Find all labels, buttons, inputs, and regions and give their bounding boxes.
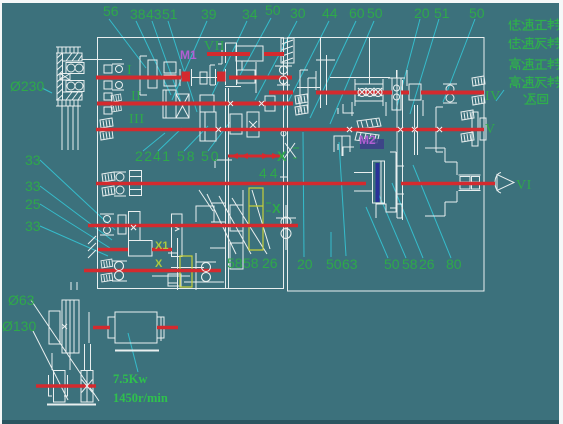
bracket right of M2 gear bbox=[390, 152, 404, 208]
motor body bbox=[115, 312, 157, 343]
bracket left of shaft I gear bbox=[140, 56, 147, 95]
clutch C bracket bbox=[495, 173, 501, 194]
svg-text:7.5Kw: 7.5Kw bbox=[113, 372, 147, 386]
svg-text:38: 38 bbox=[130, 6, 146, 22]
svg-text:50: 50 bbox=[201, 148, 221, 164]
leader from 43 bbox=[152, 21, 182, 105]
gear lattice shaft IV bbox=[352, 79, 386, 116]
white diagonals at chi bbox=[283, 143, 296, 160]
leader from 51b bbox=[410, 19, 439, 114]
svg-text:X: X bbox=[277, 148, 287, 164]
svg-text:X1: X1 bbox=[155, 240, 168, 252]
leader vertical to 63 bottom bbox=[339, 142, 346, 256]
x marks over red shaft II bbox=[228, 101, 264, 106]
tall gear verticals center right box bbox=[397, 70, 403, 220]
svg-text:M2: M2 bbox=[359, 133, 376, 147]
motor base bbox=[115, 350, 159, 352]
M2 gear cluster bbox=[354, 161, 385, 203]
gearbox right housing box bbox=[288, 38, 485, 292]
bearing bottom left bbox=[101, 259, 113, 268]
brackets around V hatched gear bbox=[338, 104, 354, 156]
small plate shaft I bbox=[200, 72, 207, 84]
vertical line right of yellow gear bbox=[195, 253, 197, 290]
svg-text:50: 50 bbox=[265, 2, 281, 18]
white shaft line between couplings bbox=[192, 77, 217, 79]
leader from 39 bbox=[172, 21, 207, 100]
svg-text:Ø230: Ø230 bbox=[10, 78, 44, 94]
tall fork gear rect bbox=[129, 212, 141, 241]
white diagonal fork leader bbox=[252, 190, 270, 249]
cyan leader lines layer bbox=[40, 18, 504, 372]
svg-text:III: III bbox=[129, 112, 145, 127]
gear on shaft I bbox=[148, 60, 157, 88]
leader from 25 bbox=[40, 204, 110, 248]
small x on shaft y224 bbox=[131, 225, 136, 230]
svg-text:Ø130: Ø130 bbox=[2, 318, 36, 334]
leader to 50 bottom right bbox=[366, 207, 388, 258]
chinese row 3 high speed forward bbox=[510, 58, 561, 70]
leader motor to 7.5Kw bbox=[128, 333, 138, 372]
motor right cap bbox=[157, 317, 164, 338]
fork slide rect upper bbox=[230, 205, 243, 231]
shaft I red bbox=[96, 76, 292, 80]
bearing row y224 left bbox=[104, 216, 111, 223]
fork tick marks bbox=[210, 203, 226, 248]
white drawing layer bbox=[31, 37, 514, 405]
red dimension arrows mid bbox=[228, 155, 283, 158]
hatched gear cluster shaft V bbox=[355, 118, 381, 143]
staircase to clutch lower bbox=[425, 191, 457, 216]
svg-text:20: 20 bbox=[297, 256, 313, 272]
shaft II hatch ticks bbox=[111, 94, 121, 102]
coupling red b shaft I bbox=[217, 72, 226, 82]
leader from 44 bbox=[284, 21, 329, 110]
svg-text:33: 33 bbox=[25, 152, 41, 168]
svg-text:22: 22 bbox=[135, 148, 154, 164]
svg-text:IV: IV bbox=[485, 89, 501, 104]
shaft y250 red bbox=[98, 248, 172, 252]
svg-text:51: 51 bbox=[162, 6, 178, 22]
gear rect on shaft VII bbox=[236, 46, 263, 61]
svg-text:50: 50 bbox=[326, 256, 342, 272]
svg-text:X: X bbox=[272, 201, 281, 216]
pulley x mark bbox=[62, 324, 67, 329]
svg-text:44: 44 bbox=[322, 5, 338, 21]
gear shaft III mid bbox=[230, 114, 242, 134]
lower pulley shaft red bbox=[36, 384, 96, 388]
shaft y270 red bbox=[84, 269, 221, 273]
white leader 26bl bbox=[232, 198, 267, 254]
leader vertical to 50 bottom bbox=[330, 232, 332, 257]
svg-text:43: 43 bbox=[146, 6, 162, 22]
x mark over red shaft III bbox=[216, 127, 221, 132]
motor left cap bbox=[108, 317, 115, 338]
leader from 33b bbox=[40, 186, 112, 240]
fork slide rect lower bbox=[230, 243, 243, 269]
input pulley upper bearing pair bbox=[66, 63, 84, 74]
gearbox left housing box bbox=[98, 38, 284, 289]
pointer hook 22 row bbox=[215, 160, 232, 168]
svg-text:34: 34 bbox=[242, 6, 258, 22]
leader from 50b bbox=[330, 21, 374, 124]
white marks over red bbox=[82, 66, 443, 395]
leader from 58m bbox=[184, 126, 208, 151]
gear bridging II-III bbox=[176, 94, 189, 118]
divider bearing on shaft II bbox=[275, 58, 292, 92]
small x marks shaft V bbox=[347, 127, 442, 132]
gear cluster shaft II bbox=[163, 90, 176, 118]
motor shaft red bbox=[93, 326, 178, 330]
hatched gear on shaft VII right bbox=[281, 38, 294, 63]
bracket above M2 area bbox=[334, 136, 350, 156]
svg-text:39: 39 bbox=[201, 6, 217, 22]
svg-text:Ø63: Ø63 bbox=[8, 292, 35, 308]
svg-text:26: 26 bbox=[262, 255, 278, 271]
svg-text:58: 58 bbox=[227, 255, 243, 271]
bearing shaft IV right bbox=[446, 85, 454, 93]
yellow tall rect lower bbox=[180, 256, 192, 287]
bearing circles over red bottom bbox=[115, 262, 211, 282]
svg-text:VI: VI bbox=[516, 178, 532, 193]
svg-text:63: 63 bbox=[342, 256, 358, 272]
coupling shaft II bbox=[265, 96, 275, 111]
svg-text:25: 25 bbox=[25, 196, 41, 212]
clutch rects bbox=[459, 175, 481, 191]
clutch triangle bbox=[497, 175, 514, 191]
svg-text:58: 58 bbox=[243, 255, 259, 271]
bracket shaft V right bbox=[436, 107, 443, 152]
leader from 33a bbox=[40, 160, 115, 230]
leader from 60 bbox=[310, 21, 356, 118]
shaft IV red main bbox=[316, 91, 484, 95]
end gears shaft V bbox=[472, 112, 486, 146]
svg-text:58: 58 bbox=[177, 148, 197, 164]
pulley shaft hanger lines bbox=[62, 106, 78, 150]
leader to 80 bottom right bbox=[413, 165, 451, 258]
fork bracket bbox=[196, 206, 214, 222]
svg-text:33: 33 bbox=[25, 178, 41, 194]
leader from 38 bbox=[136, 21, 171, 95]
svg-text:II: II bbox=[131, 89, 141, 104]
left edge hatch ticks bbox=[88, 236, 96, 258]
svg-text:20: 20 bbox=[414, 5, 430, 21]
chinese row 5 return bbox=[524, 94, 548, 104]
input pulley left hatched column bbox=[57, 53, 63, 100]
border frame left bbox=[0, 0, 2, 424]
leader from 33c bbox=[40, 226, 108, 256]
big pulley stack bottom left bbox=[49, 300, 79, 353]
divider column mid bbox=[281, 131, 286, 136]
gear shaft IV right bbox=[407, 70, 423, 116]
motor shaft flange bbox=[160, 317, 162, 341]
square with line bottom bbox=[152, 274, 190, 286]
pi bracket right box bottom bbox=[376, 204, 402, 218]
bevel pair shaft V right bbox=[461, 110, 474, 120]
bearing column right of divider bbox=[316, 38, 335, 108]
fork slider rect right bbox=[172, 214, 183, 257]
svg-text:50: 50 bbox=[469, 5, 485, 21]
white diagonal hook bbox=[199, 190, 213, 211]
leader from 30 bbox=[255, 21, 297, 100]
gear shaft II right bbox=[200, 95, 214, 112]
gear with x shaft III bbox=[247, 112, 259, 137]
leader from 50c bbox=[443, 19, 475, 102]
asterisk over red at lower pulley bbox=[82, 377, 93, 395]
svg-text:1450r/min: 1450r/min bbox=[113, 391, 168, 405]
svg-text:50: 50 bbox=[367, 5, 383, 21]
coupling red a shaft I bbox=[182, 72, 191, 82]
svg-text:I: I bbox=[127, 63, 132, 78]
white leader 58bl2 bbox=[219, 196, 251, 254]
small cyan mark near return row bbox=[496, 90, 504, 101]
input pulley top arm bbox=[63, 53, 83, 61]
phi leaders white bbox=[31, 300, 99, 401]
divider bearing circles over red bbox=[280, 66, 288, 84]
fork rod bbox=[168, 238, 178, 290]
shaft II left bearing bbox=[104, 93, 112, 114]
svg-text:80: 80 bbox=[446, 256, 462, 272]
bracket line to box bbox=[82, 59, 122, 61]
red shaft layer bbox=[36, 54, 495, 386]
svg-text:51: 51 bbox=[434, 5, 450, 21]
double square gear y183 bbox=[130, 171, 142, 196]
shaft VI red left bbox=[96, 182, 366, 186]
shaft VII red segment a bbox=[207, 52, 250, 56]
vertical hanger below VII gear bbox=[242, 61, 256, 93]
svg-text:56: 56 bbox=[103, 3, 119, 19]
lattice circles over red bbox=[358, 88, 382, 97]
shaft IV red stub bbox=[269, 91, 293, 95]
white leader 58bl bbox=[207, 194, 236, 254]
leader from 20t bbox=[396, 19, 420, 110]
svg-text:58: 58 bbox=[402, 256, 418, 272]
shaft III left bevel bearing bbox=[100, 118, 113, 128]
staircase to clutch upper bbox=[425, 148, 457, 175]
leader to 26 bottom right bbox=[392, 183, 423, 258]
small pulley flanges bbox=[49, 375, 68, 396]
input pulley bottom teeth bbox=[56, 100, 81, 106]
input pulley bottom arm bbox=[63, 92, 83, 100]
border frame right bbox=[559, 0, 563, 424]
bracket left of VII gear bbox=[218, 44, 222, 64]
svg-text:X: X bbox=[155, 258, 163, 270]
shaft VI red right bbox=[401, 182, 495, 186]
leader from 51 bbox=[168, 21, 197, 112]
blue layer bbox=[360, 139, 384, 202]
tall gear pair shaft V mid bbox=[415, 105, 418, 155]
shaft I left bearing bbox=[104, 65, 112, 89]
staircase above shaft IV bbox=[297, 70, 320, 112]
svg-text:26: 26 bbox=[419, 256, 435, 272]
svg-text:30: 30 bbox=[290, 5, 306, 21]
svg-text:60: 60 bbox=[349, 5, 365, 21]
svg-text:44: 44 bbox=[259, 165, 281, 181]
bottom dark strip bbox=[2, 420, 559, 424]
leader from 22 bbox=[143, 133, 165, 151]
svg-text:V: V bbox=[485, 122, 496, 137]
green tick marks near chi bbox=[293, 148, 299, 158]
svg-text:50: 50 bbox=[384, 256, 400, 272]
svg-text:41: 41 bbox=[153, 148, 172, 164]
gear pair on shaft I bbox=[164, 62, 176, 86]
leader from phi230 bbox=[42, 88, 52, 93]
svg-text:33: 33 bbox=[25, 218, 41, 234]
chinese row 1 low speed forward bbox=[509, 19, 560, 30]
leader from 41 bbox=[158, 128, 182, 151]
x marks over red shaft V bbox=[347, 127, 442, 132]
input pulley top teeth bbox=[56, 47, 81, 53]
x mark over red y224 bbox=[131, 225, 136, 230]
wide gear rect y250 bbox=[129, 241, 153, 257]
shaft II red bbox=[97, 102, 293, 106]
vertical right of forks bbox=[242, 190, 244, 258]
border frame top bbox=[0, 0, 563, 3]
yellow layer bbox=[180, 188, 263, 287]
leader from 56 bbox=[109, 19, 146, 68]
rect on shaft I after coupling bbox=[237, 70, 255, 83]
gear cluster shaft III bbox=[200, 112, 216, 141]
leader from 34 bbox=[212, 21, 247, 95]
chinese row 2 low speed reverse bbox=[509, 38, 560, 49]
leader from 50a bbox=[240, 18, 271, 75]
leader vertical to 20 bottom bbox=[303, 132, 304, 257]
bevel pair right of divider shaft II bbox=[295, 94, 308, 104]
coupling shaft IV bbox=[388, 70, 405, 110]
coupling flanges shaft I bbox=[180, 65, 226, 86]
dark blue bar in gear bbox=[376, 163, 380, 202]
dark blue blob under M2 bbox=[360, 139, 384, 149]
lower left stub lines bbox=[71, 282, 77, 290]
bevel pair shaft IV end bbox=[472, 76, 485, 86]
shaft III and V red bbox=[96, 128, 484, 132]
white shaft I extension line bbox=[330, 77, 390, 79]
leader from 50m bbox=[208, 122, 230, 151]
svg-text:M1: M1 bbox=[180, 48, 197, 62]
motor flange vertical bbox=[88, 312, 90, 343]
divider bearing lower bbox=[276, 205, 296, 250]
shaft VII red segment b bbox=[264, 52, 284, 56]
tall gear between VII and I bbox=[225, 43, 241, 87]
bearing row y183 left bbox=[102, 172, 115, 182]
small pulley band bbox=[81, 371, 93, 403]
leader to 58 bottom right bbox=[376, 188, 406, 258]
small pulley base bbox=[47, 404, 96, 406]
horizontal line y267 bbox=[171, 267, 204, 269]
shaft y224 red bbox=[88, 224, 298, 228]
input pulley x box bbox=[60, 74, 70, 81]
long fork vertical pair bbox=[226, 88, 229, 288]
vertical hanger from top edge bbox=[369, 37, 371, 84]
small pulley bottom bbox=[54, 371, 66, 403]
belt lines bbox=[52, 344, 91, 370]
dashes near X bbox=[266, 203, 271, 211]
yellow gear rect highlight bbox=[249, 188, 263, 250]
bearing circles mid bottom bbox=[202, 263, 211, 272]
input pulley lower bearing pair bbox=[66, 81, 84, 92]
chinese row 4 high speed reverse bbox=[510, 76, 561, 88]
svg-text:VII: VII bbox=[204, 39, 225, 54]
